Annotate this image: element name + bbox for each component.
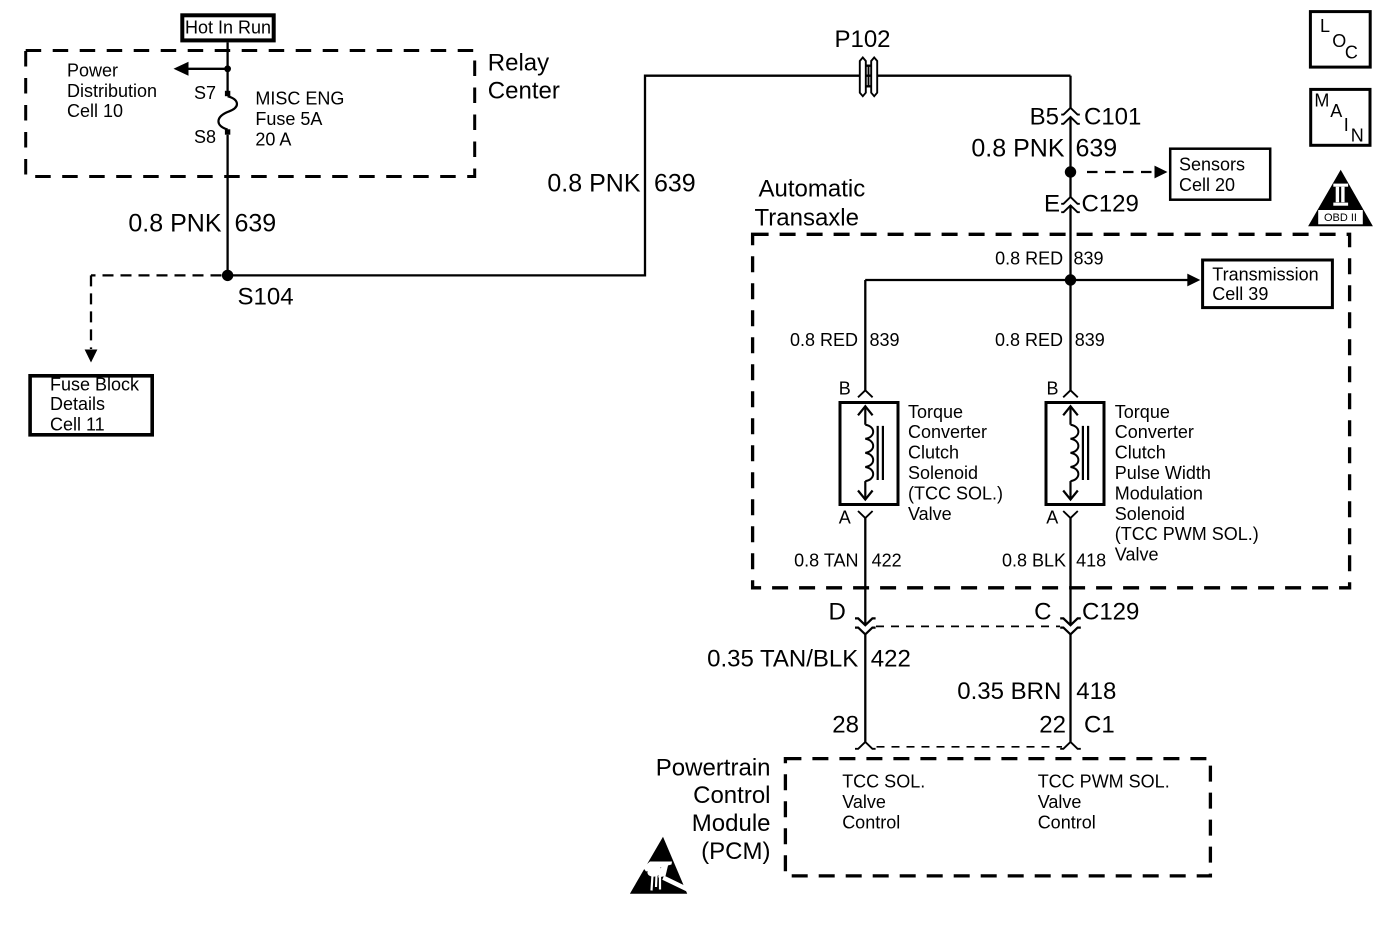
label Relay Center (488, 50, 560, 105)
svg-text:Converter: Converter (908, 422, 987, 442)
svg-text:0.8 RED: 0.8 RED (995, 248, 1063, 268)
svg-text:Power: Power (67, 60, 118, 80)
svg-text:D: D (828, 599, 845, 626)
label 0.35 TAN/BLK 422 (707, 646, 911, 673)
svg-text:Converter: Converter (1115, 422, 1194, 442)
pin A (TCC PWM SOL) (1046, 508, 1078, 528)
svg-text:C129: C129 (1082, 599, 1139, 626)
svg-text:S7: S7 (194, 83, 216, 103)
svg-text:20 A: 20 A (255, 130, 291, 150)
box Fuse Block Details Cell 11 (30, 375, 152, 435)
svg-text:839: 839 (1075, 330, 1105, 350)
svg-text:Valve: Valve (842, 792, 886, 812)
arrow to Transmission (1071, 274, 1201, 287)
wire C101 to C129 (1069, 117, 1071, 198)
svg-text:Cell 11: Cell 11 (50, 414, 105, 434)
svg-text:I: I (1344, 115, 1349, 135)
svg-text:Solenoid: Solenoid (908, 463, 978, 483)
svg-text:C129: C129 (1082, 190, 1139, 217)
connector C129 dashed body (876, 625, 1060, 627)
svg-text:Torque: Torque (908, 402, 963, 422)
box Automatic Transaxle (753, 234, 1350, 588)
connector C1 pin 22 (1039, 711, 1114, 748)
label 0.8 PNK 639 (right) (971, 134, 1117, 162)
svg-text:Relay: Relay (488, 50, 549, 77)
svg-text:(TCC SOL.): (TCC SOL.) (908, 483, 1003, 503)
svg-text:N: N (1351, 126, 1364, 146)
svg-text:OBD II: OBD II (1324, 212, 1357, 224)
box Transmission Cell 39 (1203, 260, 1333, 308)
svg-text:C1: C1 (1084, 711, 1115, 738)
svg-text:B5: B5 (1030, 103, 1059, 130)
solenoid TCC SOL coil symbol (858, 406, 883, 499)
svg-text:639: 639 (654, 170, 696, 198)
label Powertrain Control Module (PCM) (656, 754, 771, 865)
splice S104 (222, 270, 294, 311)
svg-text:Fuse 5A: Fuse 5A (255, 109, 322, 129)
svg-text:M: M (1314, 91, 1329, 111)
svg-text:639: 639 (1076, 134, 1118, 162)
svg-text:Pulse Width: Pulse Width (1115, 463, 1211, 483)
icon LOC (1310, 12, 1370, 68)
svg-text:0.35 TAN/BLK: 0.35 TAN/BLK (707, 646, 858, 673)
svg-text:Cell 39: Cell 39 (1212, 284, 1268, 304)
label Power Distribution Cell 10 (67, 60, 157, 121)
svg-text:Transaxle: Transaxle (755, 205, 859, 232)
svg-text:C101: C101 (1084, 103, 1141, 130)
connector C129 terminal C (1034, 599, 1139, 635)
svg-text:Control: Control (842, 813, 900, 833)
svg-text:0.8 RED: 0.8 RED (790, 330, 858, 350)
label 0.8 RED 839 (left branch) (790, 330, 900, 350)
label 0.8 BLK 418 (1002, 551, 1106, 571)
wire S104 up-over to P102 run (228, 76, 1071, 276)
wire A down left (864, 518, 866, 625)
wire D to PCM (864, 634, 866, 741)
connector P102 (834, 26, 890, 96)
svg-text:422: 422 (871, 646, 911, 673)
svg-text:Cell 20: Cell 20 (1179, 175, 1235, 195)
splice S7 (194, 83, 230, 103)
svg-text:Distribution: Distribution (67, 81, 157, 101)
connector C1 pin 28 (832, 711, 875, 748)
wire C to PCM (1069, 634, 1071, 741)
svg-text:A: A (1046, 508, 1058, 528)
svg-text:Solenoid: Solenoid (1115, 504, 1185, 524)
svg-text:S104: S104 (238, 283, 294, 310)
svg-text:Clutch: Clutch (1115, 443, 1166, 463)
svg-text:A: A (1330, 101, 1342, 121)
pin B (TCC SOL) (839, 379, 873, 399)
svg-text:S8: S8 (194, 127, 216, 147)
connector C129 terminal D (828, 599, 875, 635)
wire S8 to S104 (226, 135, 228, 276)
svg-text:B: B (839, 379, 851, 399)
box Relay Center (26, 51, 475, 177)
svg-text:Center: Center (488, 78, 560, 105)
svg-text:0.8 RED: 0.8 RED (995, 330, 1063, 350)
svg-text:418: 418 (1076, 678, 1116, 705)
svg-text:0.8 BLK: 0.8 BLK (1002, 551, 1066, 571)
wire P102 corner down (1069, 76, 1071, 108)
label TCC SOL. Valve Control (842, 772, 925, 833)
wire E down to splice (1069, 205, 1071, 280)
fuse MISC ENG 20 A (218, 96, 236, 129)
svg-text:Torque: Torque (1115, 402, 1170, 422)
svg-text:Control: Control (1038, 813, 1096, 833)
svg-text:Transmission: Transmission (1212, 264, 1318, 284)
svg-text:839: 839 (1074, 248, 1104, 268)
solenoid TCC PWM SOL box (1046, 403, 1104, 505)
svg-text:Hot In Run: Hot In Run (185, 18, 271, 38)
svg-text:28: 28 (832, 711, 859, 738)
svg-text:C: C (1345, 42, 1358, 62)
label 0.8 RED 839 (top) (995, 248, 1103, 268)
svg-text:MISC ENG: MISC ENG (255, 89, 344, 109)
svg-text:Automatic: Automatic (759, 176, 866, 203)
wire right branch down (1069, 280, 1071, 390)
label 0.8 RED 839 (right branch) (995, 330, 1105, 350)
svg-text:0.8 PNK: 0.8 PNK (128, 209, 221, 237)
node Hot In Run (182, 15, 273, 40)
label TCC PWM SOL. Valve Control (1038, 772, 1170, 833)
pin B (TCC PWM SOL) (1047, 379, 1078, 399)
svg-text:0.8 PNK: 0.8 PNK (971, 134, 1064, 162)
svg-text:22: 22 (1039, 711, 1066, 738)
solenoid TCC PWM SOL coil symbol (1063, 406, 1088, 499)
wire Hot In Run to S7 (226, 42, 228, 91)
wire A down right (1069, 518, 1071, 625)
svg-text:Details: Details (50, 394, 105, 414)
svg-text:(TCC PWM SOL.): (TCC PWM SOL.) (1115, 524, 1259, 544)
solenoid TCC SOL box (840, 403, 898, 505)
wire branch to both solenoids (865, 279, 1070, 281)
svg-text:Clutch: Clutch (908, 443, 959, 463)
splice to Sensors (1065, 166, 1168, 179)
dashed wire S104 to Fuse Block (85, 275, 222, 362)
svg-text:Cell 10: Cell 10 (67, 101, 123, 121)
wire left branch down (864, 280, 866, 390)
svg-text:TCC SOL.: TCC SOL. (842, 772, 925, 792)
svg-text:Valve: Valve (1115, 545, 1159, 565)
svg-text:Valve: Valve (908, 504, 952, 524)
arrow to Power Distribution (174, 62, 228, 76)
label Torque Converter Clutch Solenoid (TCC SOL.) Valve (908, 402, 1003, 524)
label Automatic Transaxle (755, 176, 866, 232)
svg-text:422: 422 (872, 551, 902, 571)
label MISC ENG Fuse 5A 20 A (255, 89, 344, 150)
svg-text:B: B (1047, 379, 1059, 399)
svg-text:C: C (1034, 599, 1051, 626)
label 0.8 PNK 639 (upper left) (128, 209, 276, 237)
svg-text:A: A (839, 508, 851, 528)
icon MAIN (1311, 89, 1370, 145)
junction dot (224, 65, 231, 72)
icon OBD II triangle (1308, 170, 1373, 227)
svg-text:Powertrain: Powertrain (656, 754, 771, 781)
label 0.35 BRN 418 (957, 678, 1116, 705)
label 0.8 PNK 639 (mid) (547, 170, 695, 198)
svg-text:(PCM): (PCM) (701, 838, 770, 865)
svg-text:0.8 PNK: 0.8 PNK (547, 170, 640, 198)
svg-text:639: 639 (235, 209, 277, 237)
svg-text:Module: Module (692, 810, 771, 837)
svg-text:L: L (1320, 16, 1330, 36)
label Torque Converter Clutch Pulse Width Modulation Solenoid (TCC PWM SOL.) Valve (1115, 402, 1259, 565)
svg-text:Valve: Valve (1038, 792, 1082, 812)
svg-text:E: E (1044, 190, 1060, 217)
svg-text:839: 839 (870, 330, 900, 350)
box Sensors Cell 20 (1170, 149, 1270, 200)
splice S8 (194, 127, 230, 147)
connector C101 terminal B5 (1030, 103, 1142, 130)
connector C129 terminal E (1044, 190, 1139, 217)
svg-text:TCC PWM SOL.: TCC PWM SOL. (1038, 772, 1170, 792)
svg-text:Fuse Block: Fuse Block (50, 375, 140, 395)
svg-text:Control: Control (693, 782, 770, 809)
label 0.8 TAN 422 (794, 551, 902, 571)
svg-text:0.35 BRN: 0.35 BRN (957, 678, 1061, 705)
svg-text:Modulation: Modulation (1115, 483, 1203, 503)
ESD symbol (630, 837, 690, 894)
box Powertrain Control Module PCM (785, 759, 1210, 876)
svg-text:Sensors: Sensors (1179, 155, 1245, 175)
svg-text:418: 418 (1076, 551, 1106, 571)
connector C1 dashed body (877, 746, 1063, 748)
pin A (TCC SOL) (839, 508, 873, 528)
splice junction (1065, 274, 1076, 285)
svg-text:0.8 TAN: 0.8 TAN (794, 551, 858, 571)
svg-text:P102: P102 (834, 26, 890, 53)
